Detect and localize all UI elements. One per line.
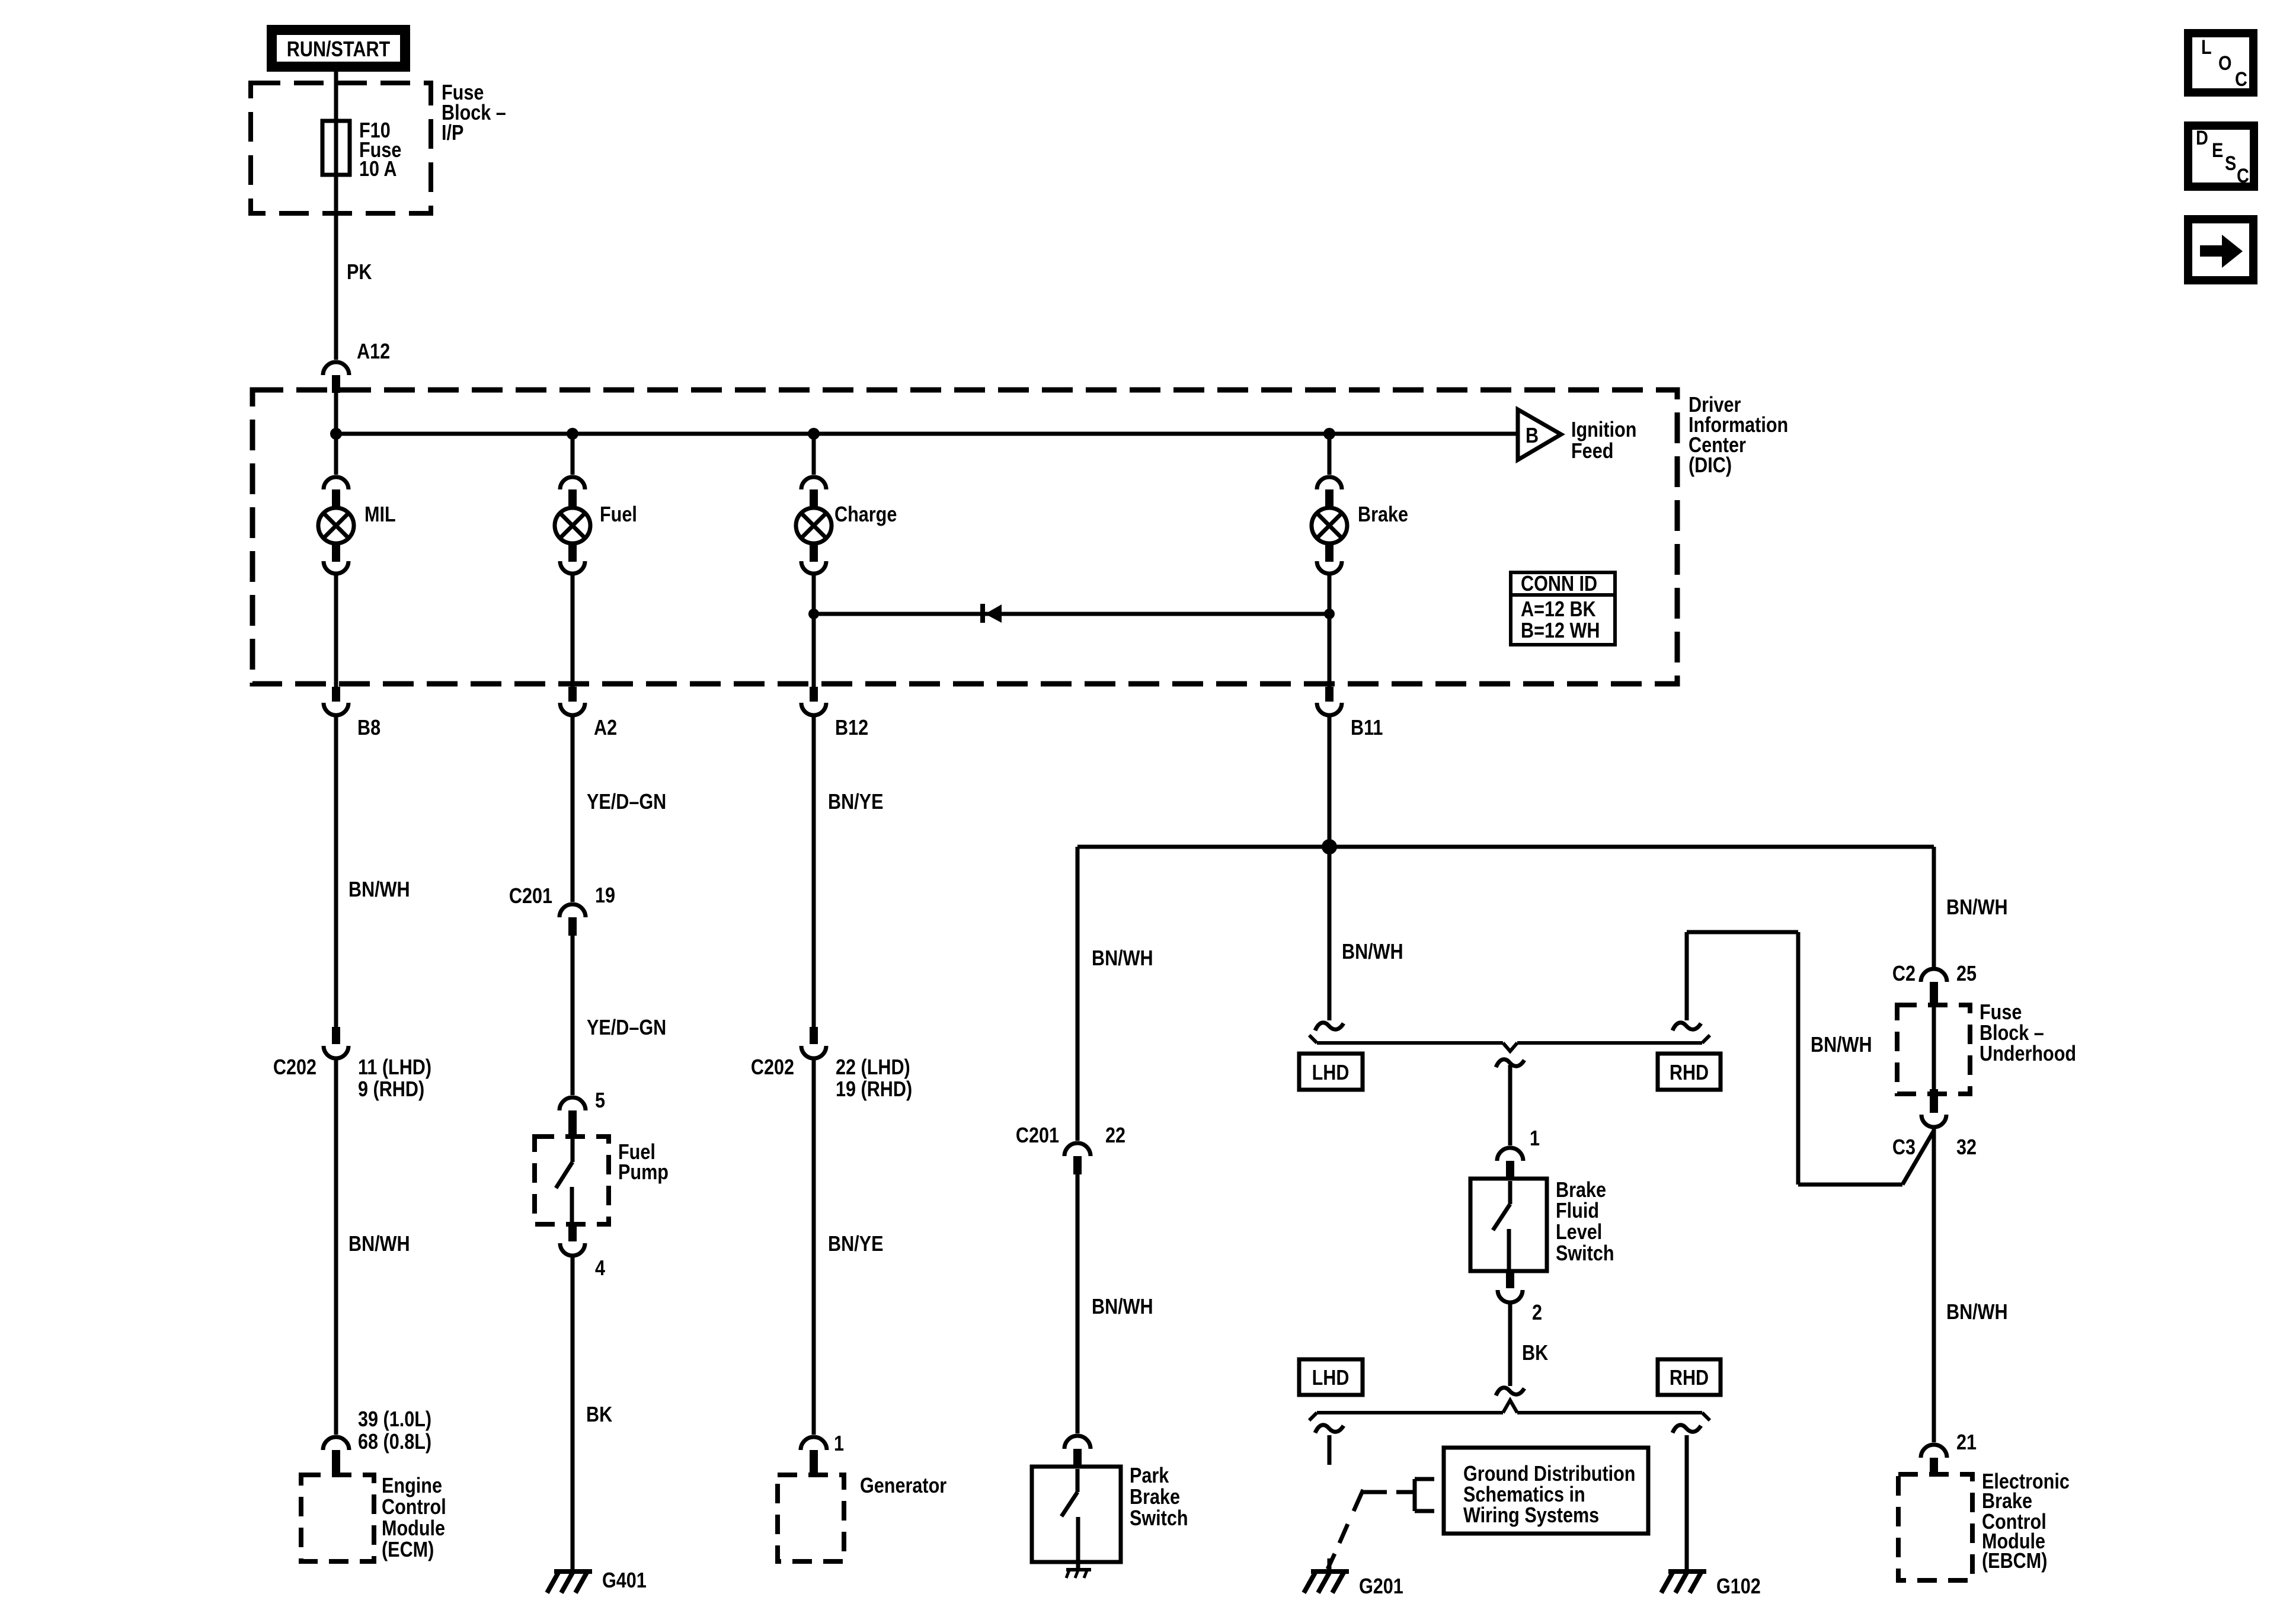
DIC dashed box <box>252 390 1677 684</box>
svg-text:B=12 WH: B=12 WH <box>1521 619 1600 643</box>
label 22 <box>1105 1124 1125 1148</box>
svg-text:C2: C2 <box>1892 962 1916 986</box>
connector A12 <box>323 362 349 393</box>
svg-text:25: 25 <box>1956 962 1977 986</box>
label BK colB <box>586 1403 612 1427</box>
RHD box row2 <box>1658 1359 1721 1395</box>
svg-text:BN/WH: BN/WH <box>1811 1033 1872 1057</box>
label C202 colC <box>751 1056 794 1080</box>
svg-text:BN/YE: BN/YE <box>828 1233 883 1256</box>
svg-text:L: L <box>2201 36 2212 59</box>
label A2 <box>594 716 617 740</box>
svg-text:RUN/START: RUN/START <box>287 38 391 62</box>
svg-text:C202: C202 <box>273 1056 316 1080</box>
svg-text:O: O <box>2218 52 2231 75</box>
connector B12 <box>801 687 826 715</box>
wire Charge lamp to B12 <box>812 573 816 687</box>
svg-text:C201: C201 <box>1016 1124 1059 1148</box>
svg-text:32: 32 <box>1956 1136 1977 1160</box>
label BN/YE lower <box>828 1233 883 1256</box>
label Fuel Pump <box>618 1141 669 1185</box>
svg-text:Brake: Brake <box>1982 1490 2032 1513</box>
label BN/YE upper <box>828 790 883 814</box>
dashed ground switch blade <box>1328 1490 1363 1569</box>
splice hook colD <box>1315 1023 1344 1030</box>
wire Charge lamp top <box>812 434 816 475</box>
label Fuse Block Underhood <box>1980 1001 2076 1066</box>
svg-text:Ground Distribution: Ground Distribution <box>1463 1462 1636 1486</box>
label BN/WH colE lower <box>1092 1295 1153 1319</box>
svg-text:G201: G201 <box>1359 1575 1403 1599</box>
wire from RUN/START to fuse F10 <box>334 72 338 121</box>
svg-text:S: S <box>2225 152 2236 175</box>
fuse block underhood dashed box <box>1897 1005 1970 1094</box>
node diode right <box>1324 609 1335 619</box>
svg-text:Fuel: Fuel <box>600 503 637 527</box>
ground distribution reference box <box>1444 1448 1648 1534</box>
wire inside fuse block underhood <box>1932 1007 1936 1089</box>
label Park Brake Switch <box>1130 1464 1188 1531</box>
label Generator <box>860 1474 946 1498</box>
svg-text:19: 19 <box>595 884 615 908</box>
svg-text:MIL: MIL <box>364 503 396 527</box>
label BN/WH colA lower <box>348 1233 410 1256</box>
svg-text:Switch: Switch <box>1556 1242 1614 1266</box>
splice hook RHD row1 <box>1673 1023 1701 1030</box>
svg-text:Control: Control <box>382 1496 446 1519</box>
LHD box row1 <box>1299 1054 1363 1090</box>
label G102 <box>1716 1575 1761 1599</box>
ignition feed arrow B <box>1518 409 1561 460</box>
connector C202 colA <box>324 1027 348 1058</box>
svg-text:B: B <box>1526 424 1539 448</box>
splice hook row1 center <box>1496 1060 1524 1067</box>
svg-text:Schematics in: Schematics in <box>1463 1483 1585 1507</box>
label Ignition Feed <box>1571 418 1636 463</box>
wire Fuel lamp top <box>571 434 575 475</box>
arrow icon box <box>2188 219 2253 280</box>
svg-text:Pump: Pump <box>618 1161 669 1185</box>
label BN/WH colA upper <box>348 878 410 902</box>
svg-text:LHD: LHD <box>1312 1061 1350 1085</box>
svg-text:C202: C202 <box>751 1056 794 1080</box>
svg-text:Feed: Feed <box>1571 440 1613 463</box>
connector EBCM pin 21 <box>1921 1445 1947 1475</box>
connector generator pin <box>801 1437 827 1475</box>
connector B11 <box>1317 687 1342 715</box>
svg-text:68 (0.8L): 68 (0.8L) <box>358 1430 431 1454</box>
LHD box row2 <box>1299 1359 1363 1395</box>
branch wire horizontal <box>1077 845 1934 849</box>
label BN/WH colH upper <box>1946 896 2008 920</box>
svg-text:LHD: LHD <box>1312 1366 1350 1390</box>
label G401 <box>602 1569 647 1593</box>
svg-text:Fluid: Fluid <box>1556 1199 1599 1223</box>
wire Brake lamp top <box>1328 434 1332 475</box>
LOC icon box <box>2188 33 2253 92</box>
wire BN/YE B12 to C202 <box>812 715 816 1027</box>
svg-text:RHD: RHD <box>1670 1366 1709 1390</box>
node diode left <box>808 609 819 619</box>
label 19 <box>595 884 615 908</box>
svg-text:11 (LHD): 11 (LHD) <box>358 1056 431 1080</box>
connector fuel pump pin 5 <box>559 1097 586 1137</box>
wire Fuel lamp to A2 <box>571 573 575 687</box>
splice hook G201 branch <box>1315 1425 1344 1433</box>
node at MIL column <box>330 428 342 440</box>
svg-text:5: 5 <box>595 1089 605 1113</box>
label B11 <box>1351 716 1383 740</box>
connector BFLS pin 2 <box>1498 1271 1523 1302</box>
wire YE/D-GN A2 to C201 <box>571 715 575 902</box>
connector C201 pin 19 <box>559 904 586 936</box>
EBCM dashed box <box>1898 1474 1972 1580</box>
svg-text:BN/WH: BN/WH <box>1092 947 1153 971</box>
dashed wire to G201 switch <box>1328 1435 1332 1465</box>
svg-text:Engine: Engine <box>382 1474 442 1498</box>
wire B11 to junction <box>1328 715 1332 847</box>
svg-text:Brake: Brake <box>1358 503 1408 527</box>
park brake switch <box>1061 1469 1078 1562</box>
svg-text:Fuse: Fuse <box>1980 1001 2022 1025</box>
label Charge <box>834 503 897 527</box>
wire BN/YE C202 to generator <box>812 1058 816 1435</box>
svg-text:A2: A2 <box>594 716 617 740</box>
wire BN/WH C201 to park brake switch <box>1076 1174 1080 1433</box>
svg-text:(EBCM): (EBCM) <box>1982 1550 2047 1573</box>
svg-text:22: 22 <box>1105 1124 1125 1148</box>
label C201 colB <box>509 885 552 908</box>
label BN/WH colD <box>1342 940 1403 964</box>
svg-text:Module: Module <box>382 1517 445 1541</box>
option bracket row2 <box>1309 1400 1710 1420</box>
label A12 <box>357 340 390 364</box>
svg-text:RHD: RHD <box>1670 1061 1709 1085</box>
fuel pump switch <box>556 1139 573 1224</box>
svg-text:4: 4 <box>595 1257 605 1281</box>
svg-text:39 (1.0L): 39 (1.0L) <box>358 1408 431 1432</box>
svg-text:Level: Level <box>1556 1221 1602 1244</box>
wire BN/WH C3 to EBCM <box>1932 1127 1936 1442</box>
svg-text:A12: A12 <box>357 340 390 364</box>
label YE/D-GN lower <box>587 1016 666 1040</box>
svg-text:BN/WH: BN/WH <box>1946 896 2008 920</box>
connector C201 pin 22 <box>1064 1143 1091 1174</box>
option bracket row1 <box>1309 1035 1710 1051</box>
label CONN ID <box>1521 572 1600 643</box>
label BK colF <box>1522 1342 1548 1365</box>
connector C202 colC <box>801 1027 826 1058</box>
svg-text:Wiring Systems: Wiring Systems <box>1463 1504 1599 1528</box>
label MIL <box>364 503 396 527</box>
svg-text:CONN ID: CONN ID <box>1521 572 1597 596</box>
svg-text:Ignition: Ignition <box>1571 418 1636 442</box>
splice hook row2 center <box>1496 1388 1524 1395</box>
svg-text:(ECM): (ECM) <box>382 1538 434 1562</box>
wire BK BFLS <box>1508 1302 1512 1386</box>
svg-text:2: 2 <box>1532 1301 1542 1325</box>
label BN/WH colH lower <box>1946 1301 2008 1324</box>
label C201 colE <box>1016 1124 1059 1148</box>
connector BFLS pin 1 <box>1497 1148 1523 1179</box>
label 5 <box>595 1089 605 1113</box>
svg-text:Switch: Switch <box>1130 1507 1188 1531</box>
svg-text:I/P: I/P <box>442 121 463 145</box>
svg-text:BK: BK <box>1522 1342 1548 1365</box>
fuse F10 10A <box>322 121 350 175</box>
label Fuse Block I/P <box>442 81 506 145</box>
connector C2 pin 25 <box>1921 969 1947 1007</box>
dashed link to reference box <box>1363 1490 1415 1494</box>
svg-text:BN/WH: BN/WH <box>348 878 410 902</box>
lamp Brake <box>1312 477 1347 574</box>
brake fluid level switch box <box>1470 1179 1547 1271</box>
svg-text:B12: B12 <box>835 716 868 740</box>
svg-text:YE/D–GN: YE/D–GN <box>587 1016 666 1040</box>
diode <box>980 604 1002 623</box>
svg-text:C201: C201 <box>509 885 552 908</box>
svg-text:Brake: Brake <box>1556 1179 1606 1202</box>
svg-text:19 (RHD): 19 (RHD) <box>836 1078 912 1102</box>
svg-text:B11: B11 <box>1351 716 1383 740</box>
connector fuel pump pin 4 <box>560 1224 585 1256</box>
wire MIL lamp to B8 <box>334 573 338 687</box>
ground G102 <box>1661 1571 1706 1593</box>
lamp Charge <box>796 477 832 574</box>
svg-text:C: C <box>2237 164 2249 187</box>
wire to G102 <box>1685 1435 1689 1569</box>
label Engine Control Module ECM <box>382 1474 446 1562</box>
svg-text:22 (LHD): 22 (LHD) <box>836 1056 910 1080</box>
generator dashed box <box>778 1475 844 1561</box>
ignition switch feed RUN/START box <box>271 29 406 68</box>
ground G201 <box>1304 1571 1349 1593</box>
svg-text:PK: PK <box>347 261 372 284</box>
svg-text:BN/WH: BN/WH <box>1092 1295 1153 1319</box>
label Driver Information Center (DIC) <box>1689 393 1788 478</box>
wire RHD riser <box>1687 932 1798 1185</box>
ground G401 <box>547 1571 592 1593</box>
wire option split to pin 1 <box>1508 1065 1512 1145</box>
wire riser to C3 <box>1798 1131 1934 1185</box>
svg-text:BN/WH: BN/WH <box>1946 1301 2008 1324</box>
label 22 LHD 19 RHD <box>836 1056 912 1102</box>
svg-text:Brake: Brake <box>1130 1486 1180 1509</box>
svg-text:Block –: Block – <box>1980 1022 2044 1045</box>
connector park brake pin <box>1064 1436 1091 1467</box>
svg-text:C3: C3 <box>1892 1136 1916 1160</box>
svg-text:21: 21 <box>1956 1431 1977 1455</box>
label 4 <box>595 1257 605 1281</box>
label Brake Fluid Level Switch <box>1556 1179 1614 1266</box>
wire BN/WH to park brake <box>1076 847 1080 1141</box>
bracket to reference box <box>1415 1479 1434 1511</box>
label Fuel <box>600 503 637 527</box>
fuse block I/P dashed box <box>251 83 431 213</box>
svg-text:9 (RHD): 9 (RHD) <box>358 1078 424 1102</box>
label C3 <box>1892 1136 1916 1160</box>
wire PK <box>334 175 338 360</box>
label 39 68 <box>358 1408 431 1454</box>
label BN/WH colE upper <box>1092 947 1153 971</box>
wire Brake lamp to B11 <box>1328 573 1332 687</box>
wire BN/WH junction to option split <box>1328 847 1332 1020</box>
wire BN/WH junction to C2 <box>1932 847 1936 968</box>
label PK <box>347 261 372 284</box>
RHD box row1 <box>1658 1054 1721 1090</box>
wire BK to G401 <box>571 1256 575 1569</box>
svg-text:1: 1 <box>1530 1127 1540 1151</box>
label YE/D-GN upper <box>587 790 666 814</box>
BFLS switch <box>1493 1181 1510 1271</box>
connector ECM pin <box>323 1437 349 1475</box>
node at Brake column <box>1323 428 1335 440</box>
label C202 colA <box>273 1056 316 1080</box>
label 1 generator <box>834 1432 844 1456</box>
svg-text:BN/WH: BN/WH <box>348 1233 410 1256</box>
svg-text:G102: G102 <box>1716 1575 1761 1599</box>
label 25 <box>1956 962 1977 986</box>
label 2 BFLS <box>1532 1301 1542 1325</box>
label 1 BFLS <box>1530 1127 1540 1151</box>
svg-text:B8: B8 <box>357 716 380 740</box>
wire YE/D-GN C201 to fuel pump <box>571 936 575 1095</box>
DESC icon box <box>2188 126 2254 187</box>
park brake switch box <box>1032 1467 1121 1562</box>
wire BN/WH MIL to C202 <box>334 715 338 1027</box>
label Electronic Brake Control Module EBCM <box>1982 1470 2070 1573</box>
svg-text:G401: G401 <box>602 1569 647 1593</box>
ECM dashed box <box>301 1475 374 1561</box>
label G201 <box>1359 1575 1403 1599</box>
junction node brake branch <box>1322 839 1337 854</box>
node at Charge column <box>808 428 820 440</box>
park brake internal ground <box>1066 1562 1091 1578</box>
svg-text:A=12 BK: A=12 BK <box>1521 598 1596 622</box>
connector B8 <box>324 687 348 715</box>
wire BN/WH C202 to ECM <box>334 1058 338 1435</box>
label 32 <box>1956 1136 1977 1160</box>
label Brake <box>1358 503 1408 527</box>
CONN ID box <box>1511 572 1615 645</box>
connector A2 <box>560 687 585 715</box>
label C2 <box>1892 962 1916 986</box>
svg-text:BN/WH: BN/WH <box>1342 940 1403 964</box>
svg-text:BN/YE: BN/YE <box>828 790 883 814</box>
fuel pump dashed box <box>535 1137 609 1224</box>
lamp MIL <box>318 477 354 574</box>
svg-text:E: E <box>2212 139 2223 162</box>
splice hook G102 branch <box>1673 1425 1701 1433</box>
svg-text:10 A: 10 A <box>359 158 396 181</box>
ignition feed wire <box>336 393 1518 475</box>
label F10 Fuse 10 A <box>359 119 401 181</box>
svg-text:Park: Park <box>1130 1464 1169 1488</box>
label Ground Distribution Schematics <box>1463 1462 1636 1528</box>
node at Fuel column <box>567 428 578 440</box>
label BN/WH riser <box>1811 1033 1872 1057</box>
svg-text:1: 1 <box>834 1432 844 1456</box>
lamp Fuel <box>555 477 590 574</box>
svg-text:YE/D–GN: YE/D–GN <box>587 790 666 814</box>
connector C3 pin 32 <box>1921 1089 1946 1127</box>
wire stub above G201 <box>1328 1558 1332 1569</box>
label 11 LHD 9 RHD <box>358 1056 431 1102</box>
svg-text:(DIC): (DIC) <box>1689 454 1732 478</box>
svg-text:Underhood: Underhood <box>1980 1042 2076 1066</box>
diode wire <box>814 612 1329 616</box>
svg-text:BK: BK <box>586 1403 612 1427</box>
svg-text:Generator: Generator <box>860 1474 946 1498</box>
svg-text:C: C <box>2235 68 2247 91</box>
label B12 <box>835 716 868 740</box>
svg-text:D: D <box>2196 126 2208 149</box>
svg-text:Charge: Charge <box>834 503 897 527</box>
label B8 <box>357 716 380 740</box>
label 21 <box>1956 1431 1977 1455</box>
